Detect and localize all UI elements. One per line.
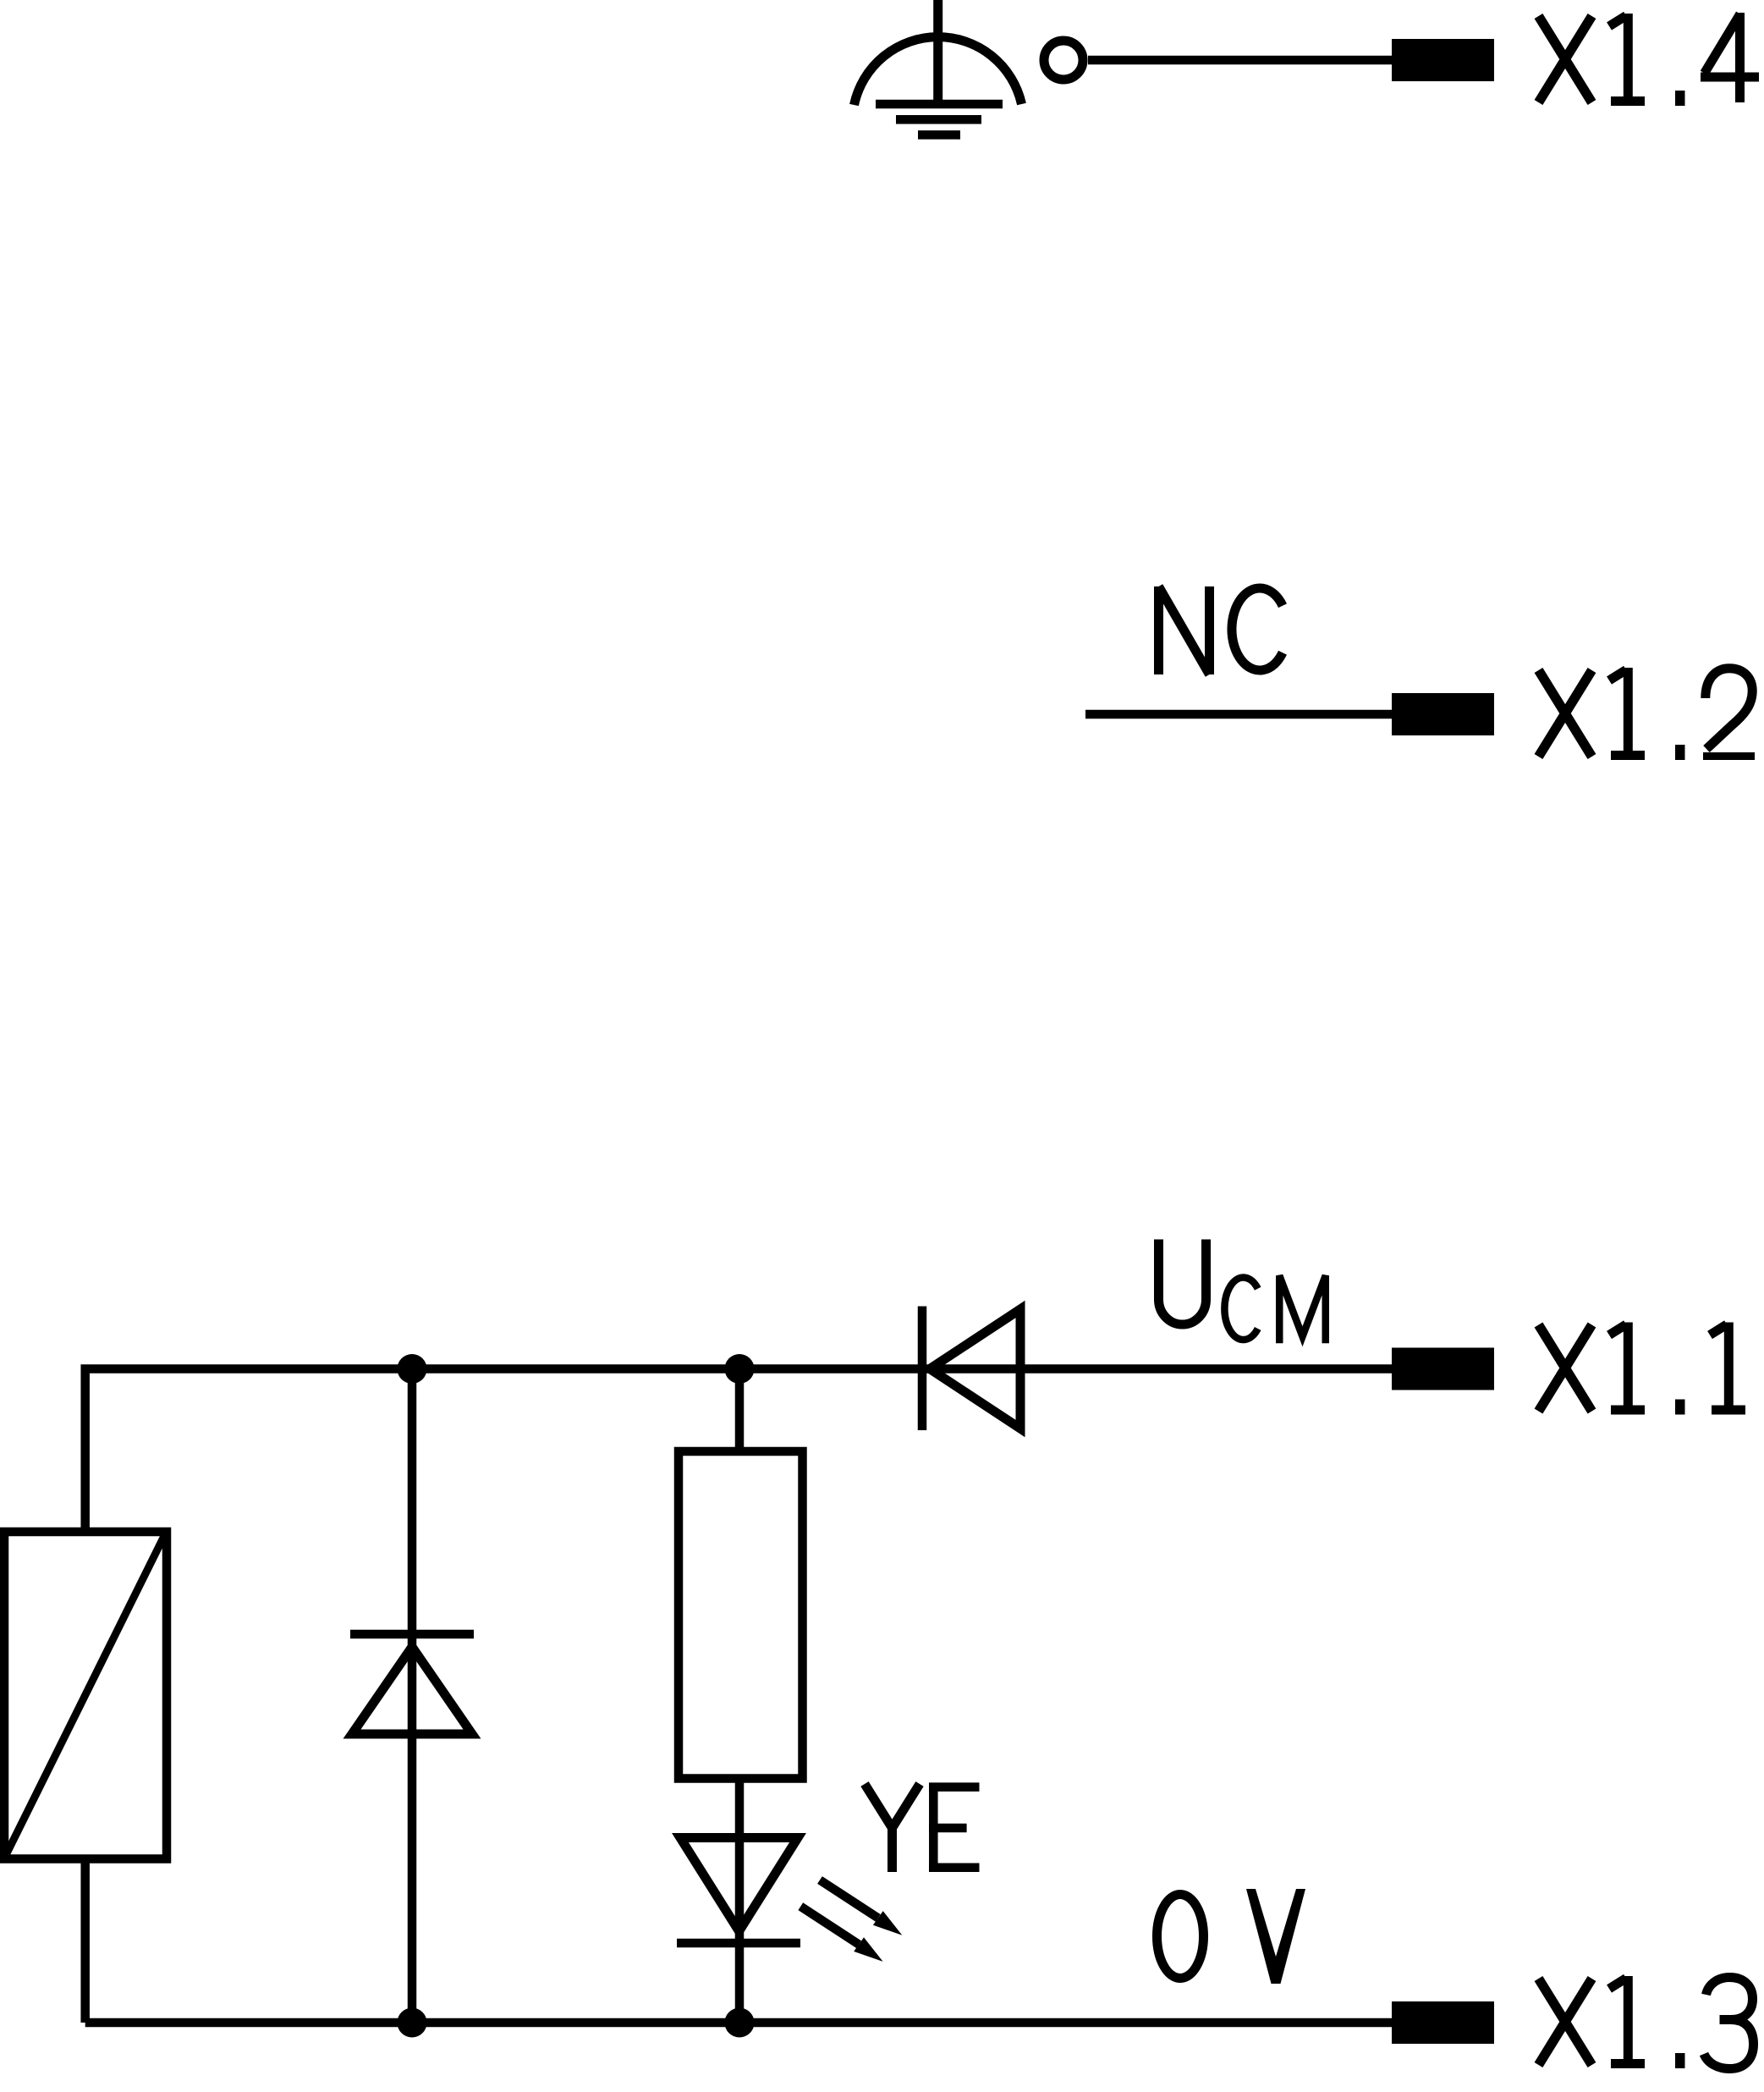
terminal X1.2	[1392, 693, 1494, 735]
open circle contact	[1044, 41, 1083, 80]
wire NC to X1.2	[1085, 710, 1392, 719]
wire resistor top	[735, 1369, 745, 1452]
wire to X1.4	[1088, 56, 1392, 65]
label X1.3	[1539, 1976, 1754, 2069]
terminal X1.1	[1392, 1348, 1494, 1390]
wire UCM main with left corner	[85, 1369, 1392, 1533]
relay coil K1	[4, 1532, 167, 1859]
node junction B	[725, 1354, 755, 1384]
wire resistor to LED	[735, 1779, 745, 2023]
label YE	[865, 1784, 980, 1872]
label U CM	[1159, 1240, 1326, 1344]
wire diode branch	[408, 1369, 417, 2023]
diode D1 (series, cathode left)	[922, 1307, 1020, 1431]
label NC	[1159, 586, 1283, 674]
terminal X1.3	[1392, 2001, 1494, 2044]
LED light arrow 2	[800, 1907, 882, 1962]
label 0 V	[1157, 1889, 1306, 1984]
resistor R1	[679, 1451, 803, 1779]
terminal X1.4	[1392, 39, 1494, 81]
LED (yellow), cathode down	[677, 1838, 800, 1944]
wire 0V to X1.3	[85, 2018, 1392, 2028]
node junction A	[398, 1354, 427, 1384]
diode V1 (freewheeling, cathode up)	[350, 1634, 474, 1734]
node junction C	[398, 2008, 427, 2038]
wire coil bottom	[80, 1859, 90, 2023]
label X1.1	[1539, 1323, 1746, 1415]
label X1.2	[1539, 668, 1756, 760]
node junction D	[725, 2008, 755, 2038]
ground (shield/earth) symbol	[855, 0, 1022, 135]
LED light arrow 1	[820, 1880, 902, 1935]
label X1.4	[1539, 13, 1760, 106]
